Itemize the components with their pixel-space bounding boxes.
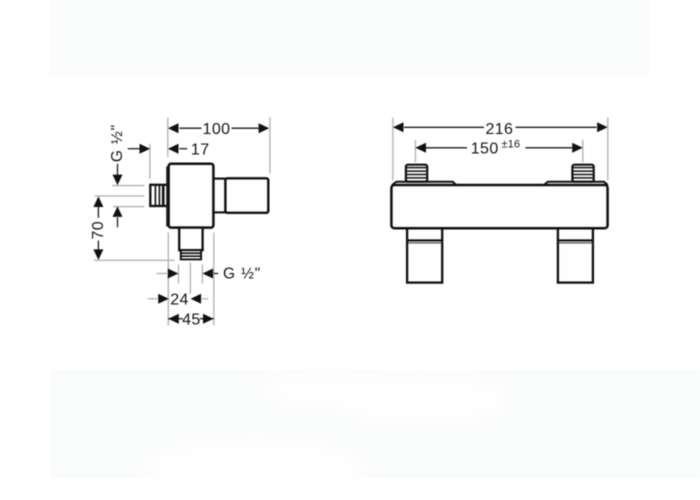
- svg-text:45: 45: [182, 311, 201, 328]
- svg-text:216: 216: [485, 121, 513, 138]
- svg-text:100: 100: [203, 121, 231, 138]
- svg-text:150: 150: [471, 140, 499, 157]
- svg-text:24: 24: [170, 291, 189, 308]
- svg-text:G ½": G ½": [109, 124, 126, 162]
- svg-text:17: 17: [191, 141, 210, 158]
- svg-text:70: 70: [90, 221, 107, 240]
- svg-text:±16: ±16: [502, 138, 521, 150]
- svg-text:G ½": G ½": [223, 266, 261, 283]
